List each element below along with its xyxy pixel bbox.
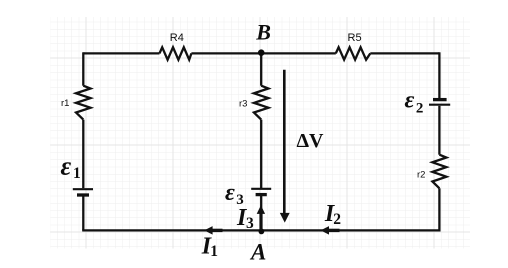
wire left branch top (82, 52, 84, 85)
svg-text:R4: R4 (170, 32, 184, 44)
battery E1 short plate (77, 193, 89, 196)
svg-text:R5: R5 (348, 32, 362, 44)
svg-text:1: 1 (210, 243, 218, 260)
I3 arrow (257, 205, 265, 230)
wire r2 to bottom-right corner (438, 188, 440, 231)
svg-text:2: 2 (333, 211, 341, 228)
resistor R4 (160, 47, 192, 59)
I2 arrow (321, 226, 340, 235)
wire node B to R5 (261, 52, 336, 54)
node B dot (258, 49, 265, 56)
svg-text:1: 1 (73, 165, 81, 182)
svg-text:r2: r2 (417, 170, 425, 181)
svg-text:3: 3 (246, 215, 254, 232)
resistor R5 (336, 47, 371, 59)
svg-text:A: A (249, 240, 266, 265)
wire r3 to battery E3 (260, 120, 262, 189)
resistor r1 (76, 86, 91, 120)
wire R4 to node B (191, 52, 261, 54)
svg-text:ε: ε (405, 87, 415, 113)
deltaV arrow (280, 70, 290, 223)
grid major lines (50, 17, 470, 249)
svg-text:r1: r1 (61, 98, 69, 109)
node A dot (259, 229, 265, 235)
resistor r2 (432, 155, 446, 189)
wire node B down to r3 (260, 53, 262, 85)
svg-text:r3: r3 (239, 99, 247, 110)
battery E3 short plate (256, 193, 267, 196)
wire battery E1 to bottom-left corner (82, 195, 84, 230)
wire r1 to battery E1 (82, 120, 84, 189)
I1 arrow (204, 226, 222, 235)
wire battery E2 to r2 (438, 106, 440, 155)
svg-text:ΔV: ΔV (297, 130, 325, 152)
grid area (50, 17, 470, 249)
svg-text:2: 2 (416, 101, 424, 117)
wire right branch top (438, 52, 440, 98)
bottom wire (82, 229, 439, 231)
svg-text:ε: ε (225, 180, 235, 206)
svg-text:B: B (255, 19, 271, 44)
wire battery E3 to node A (260, 195, 262, 230)
svg-text:ε: ε (61, 151, 72, 180)
battery E3 long plate (251, 188, 271, 190)
battery E2 short plate (433, 98, 447, 101)
wire top-left to R4 (83, 52, 159, 54)
wire R5 to top-right corner (370, 52, 439, 54)
resistor r3 (254, 86, 269, 120)
battery E1 long plate (73, 188, 93, 190)
battery E2 long plate (429, 104, 450, 106)
